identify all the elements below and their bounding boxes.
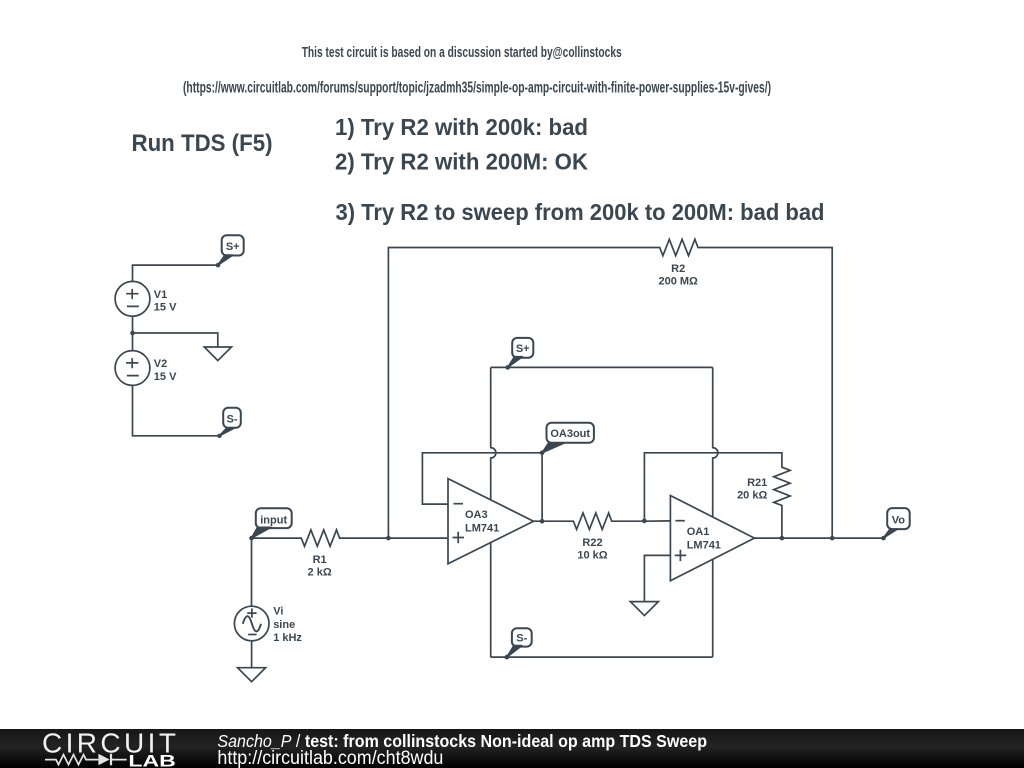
svg-text:R2: R2 xyxy=(671,263,685,275)
svg-text:R21: R21 xyxy=(747,477,767,489)
svg-text:LM741: LM741 xyxy=(687,539,721,551)
svg-text:OA1: OA1 xyxy=(687,526,710,538)
svg-text:3) Try R2 to sweep from 200k t: 3) Try R2 to sweep from 200k to 200M: ba… xyxy=(336,199,825,225)
svg-text:15 V: 15 V xyxy=(154,302,177,314)
svg-text:S+: S+ xyxy=(226,241,240,253)
svg-text:R1: R1 xyxy=(313,554,327,566)
svg-text:R22: R22 xyxy=(582,537,602,549)
svg-text:V1: V1 xyxy=(154,289,167,301)
svg-text:Vi: Vi xyxy=(273,606,283,618)
svg-text:S-: S- xyxy=(516,632,527,644)
svg-text:10 kΩ: 10 kΩ xyxy=(577,549,607,561)
svg-text:OA3out: OA3out xyxy=(550,428,590,440)
svg-text:S+: S+ xyxy=(516,343,530,355)
svg-text:1) Try R2 with 200k: bad: 1) Try R2 with 200k: bad xyxy=(335,114,588,140)
svg-text:1 kHz: 1 kHz xyxy=(273,632,302,644)
svg-text:OA3: OA3 xyxy=(465,509,488,521)
svg-text:2) Try R2 with 200M: OK: 2) Try R2 with 200M: OK xyxy=(335,148,588,174)
svg-text:LAB: LAB xyxy=(128,752,176,768)
svg-text:LM741: LM741 xyxy=(465,523,499,535)
svg-text:20 kΩ: 20 kΩ xyxy=(737,489,767,501)
svg-text:(https://www.circuitlab.com/fo: (https://www.circuitlab.com/forums/suppo… xyxy=(183,79,771,96)
svg-text:This test circuit is based on: This test circuit is based on a discussi… xyxy=(302,44,622,61)
svg-text:15 V: 15 V xyxy=(154,371,177,383)
svg-text:2 kΩ: 2 kΩ xyxy=(308,567,332,579)
svg-text:V2: V2 xyxy=(154,358,167,370)
svg-text:http://circuitlab.com/cht8wdu: http://circuitlab.com/cht8wdu xyxy=(217,748,443,768)
svg-text:200 MΩ: 200 MΩ xyxy=(658,276,698,288)
svg-text:S-: S- xyxy=(227,413,238,425)
svg-text:Vo: Vo xyxy=(892,514,906,526)
svg-text:Run TDS (F5): Run TDS (F5) xyxy=(132,130,273,157)
svg-text:sine: sine xyxy=(273,619,295,631)
svg-text:input: input xyxy=(260,514,287,526)
